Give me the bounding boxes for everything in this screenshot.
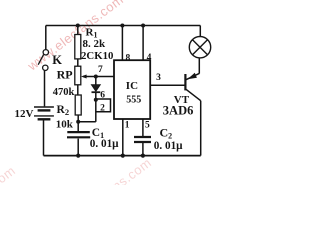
svg-text:6: 6 — [100, 90, 105, 100]
svg-text:5: 5 — [145, 121, 150, 131]
svg-text:12V: 12V — [15, 108, 34, 120]
svg-text:1: 1 — [125, 121, 130, 131]
svg-text:2CK10: 2CK10 — [81, 50, 113, 62]
svg-text:RP: RP — [57, 68, 73, 82]
svg-text:0. 01μ: 0. 01μ — [90, 138, 119, 150]
svg-text:8. 2k: 8. 2k — [83, 38, 107, 50]
svg-text:10k: 10k — [56, 119, 74, 131]
svg-text:555: 555 — [126, 94, 141, 105]
svg-text:4: 4 — [147, 53, 152, 63]
svg-text:7: 7 — [98, 65, 103, 75]
svg-text:IC: IC — [126, 80, 138, 92]
svg-text:K: K — [52, 53, 62, 67]
svg-text:3: 3 — [156, 73, 161, 83]
svg-text:470k: 470k — [53, 87, 75, 98]
svg-text:0. 01μ: 0. 01μ — [154, 140, 183, 152]
svg-text:8: 8 — [126, 54, 131, 64]
svg-text:2: 2 — [100, 103, 105, 113]
svg-text:3AD6: 3AD6 — [163, 104, 194, 118]
